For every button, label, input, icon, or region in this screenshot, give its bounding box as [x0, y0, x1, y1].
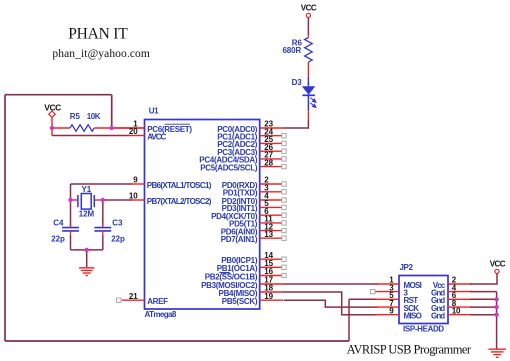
- svg-text:phan_it@yahoo.com: phan_it@yahoo.com: [52, 48, 150, 60]
- pin name PC6(RESET) with overline: [147, 124, 192, 134]
- label 12M: [79, 210, 95, 219]
- svg-text:22p: 22p: [51, 234, 65, 243]
- pin 12 stub (right): [260, 222, 286, 232]
- pin 18 stub (right): [260, 284, 284, 293]
- wire R5 right lead to pin1: [94, 127, 144, 129]
- svg-text:R5: R5: [70, 112, 81, 121]
- wire MISO net (PB4 to JP2 pin9): [284, 292, 378, 315]
- wire VCC to JP2 pin2: [470, 274, 497, 285]
- wire reset left vertical: [4, 95, 6, 341]
- pin 6 stub (right): [260, 207, 286, 218]
- pin 10 stub (left): [129, 192, 145, 201]
- svg-text:PHAN IT: PHAN IT: [68, 25, 128, 42]
- label ATmega8: [145, 310, 177, 319]
- ground (JP2): [488, 349, 506, 357]
- power VCC label (left): [44, 102, 61, 112]
- svg-text:20: 20: [129, 127, 138, 136]
- label Y1: [82, 185, 92, 194]
- caption text AVRISP USB Programmer: [347, 342, 472, 356]
- label D3: [292, 78, 303, 87]
- pin 19 stub (right): [260, 292, 284, 301]
- wire reset riser to JP2: [348, 299, 350, 341]
- pin 2 stub (right): [260, 176, 286, 187]
- node junction Gnd pin10: [494, 313, 498, 317]
- node junction XTAL2: [101, 198, 105, 202]
- wire R6 to D3: [307, 62, 309, 77]
- pin name AVCC: [147, 132, 166, 141]
- pin 5 stub (right): [260, 199, 286, 209]
- node junction VCC/R5/AVCC: [50, 126, 54, 130]
- pin name PB3(MOSI/OC2): [201, 281, 258, 290]
- wire R5 left lead: [52, 127, 70, 129]
- power VCC circle (top): [306, 13, 310, 17]
- pin 4 stub (right): [260, 192, 286, 203]
- pin name PC4(ADC4/SDA): [199, 156, 258, 165]
- node junction ground stem: [85, 248, 89, 252]
- label U1: [149, 107, 159, 116]
- pin 13 stub (right): [260, 230, 286, 241]
- svg-text:21: 21: [129, 292, 138, 301]
- label 22p (C4): [51, 234, 65, 243]
- svg-text:PB6(XTAL1/TOSC1): PB6(XTAL1/TOSC1): [147, 181, 212, 190]
- pin name PC0(ADC0): [217, 125, 258, 134]
- title text PHAN IT: [68, 25, 128, 42]
- wire D3 to PC0: [284, 121, 309, 129]
- wire R6 top lead: [307, 35, 309, 38]
- label C4: [53, 219, 64, 228]
- pin 26 stub (right): [260, 143, 286, 154]
- svg-text:C3: C3: [112, 219, 123, 228]
- svg-text:PB5(SCK): PB5(SCK): [222, 297, 258, 306]
- svg-text:Gnd: Gnd: [431, 312, 445, 321]
- wire crystal right vertical: [102, 200, 104, 227]
- svg-text:JP2: JP2: [400, 263, 414, 272]
- capacitor C3 bottom lead: [102, 231, 104, 237]
- pin name PC5(ADC5/SCL): [200, 163, 258, 172]
- svg-text:9: 9: [389, 306, 394, 315]
- wire AVCC drop: [51, 128, 53, 136]
- wire Gnd pin10 horizontal: [470, 314, 496, 316]
- wire C3 bottom lead: [102, 236, 104, 250]
- wire pin10 horizontal: [103, 199, 132, 201]
- node junction XTAL1: [68, 198, 72, 202]
- wire reset top horizontal: [5, 94, 112, 96]
- pin 28 stub (right): [260, 158, 286, 168]
- label 22p (C3): [111, 234, 125, 243]
- pin 11 stub (right): [260, 215, 286, 225]
- power VCC circle (right): [495, 269, 499, 273]
- svg-text:VCC: VCC: [44, 102, 61, 112]
- JP2 pin 5 (RST): [376, 291, 419, 305]
- pin name PD2(INT0): [222, 197, 258, 206]
- pin name PD4(XCK/T0): [211, 212, 258, 221]
- pin 3 stub (right): [260, 184, 286, 195]
- svg-text:10: 10: [452, 306, 461, 315]
- pin 20 stub (left): [129, 127, 145, 136]
- resistor R5: [70, 125, 94, 132]
- label R5: [70, 112, 81, 121]
- pin 9 stub (left): [131, 176, 145, 185]
- wire C4 bottom lead: [70, 236, 72, 250]
- wire VCC diamond to junction: [51, 117, 53, 128]
- JP2 pin 8 (Gnd): [431, 299, 472, 313]
- JP2 pin 4 (Gnd): [431, 283, 472, 297]
- svg-text:19: 19: [264, 292, 273, 301]
- JP2 pin 10 (Gnd): [431, 306, 472, 320]
- capacitor C3: [94, 228, 111, 231]
- label JP2: [400, 263, 414, 272]
- pin name PD3(INT1): [222, 204, 258, 213]
- pin name PD6(AIN0): [221, 227, 258, 236]
- LED D3: [302, 77, 316, 111]
- svg-text:ATmega8: ATmega8: [145, 310, 177, 319]
- capacitor C4 bottom lead: [70, 231, 72, 237]
- svg-text:MISO: MISO: [404, 312, 422, 321]
- crystal Y1: [71, 194, 103, 210]
- JP2 pin 9 (MISO): [376, 306, 422, 320]
- svg-text:Y1: Y1: [82, 185, 92, 194]
- svg-text:12M: 12M: [79, 210, 95, 219]
- node junction Gnd pin6: [494, 297, 498, 301]
- JP2 pin 2 (Vcc): [433, 276, 472, 290]
- svg-text:AVRISP USB Programmer: AVRISP USB Programmer: [347, 342, 472, 356]
- svg-text:ISP-HEADD: ISP-HEADD: [403, 324, 444, 333]
- svg-text:VCC: VCC: [301, 4, 317, 13]
- JP2 pin 3 (3): [371, 283, 409, 297]
- pin 24 stub (right): [260, 127, 286, 138]
- svg-text:13: 13: [264, 230, 273, 239]
- label ISP-HEADD: [403, 324, 444, 333]
- svg-text:10K: 10K: [87, 112, 101, 121]
- JP2 pin 1 (MOSI): [376, 276, 422, 290]
- label 680R: [282, 46, 301, 55]
- wire MOSI net (PB3 to JP2 pin1): [284, 283, 378, 285]
- capacitor C4 top lead: [70, 223, 72, 228]
- svg-text:680R: 680R: [282, 46, 301, 55]
- power VCC diamond symbol: [49, 111, 55, 117]
- pin name PC3(ADC3): [217, 148, 258, 157]
- wire AVCC horizontal: [52, 135, 130, 137]
- svg-text:U1: U1: [149, 107, 159, 116]
- pin name PB5(SCK): [222, 297, 258, 306]
- connector JP2 box: [399, 276, 448, 324]
- pin name PB1(OC1A): [217, 264, 258, 273]
- pin name PD1(TXD): [223, 189, 258, 198]
- svg-text:28: 28: [264, 158, 273, 167]
- wire Gnd pin6 horizontal: [470, 298, 496, 300]
- wire Gnd pin8 horizontal: [470, 306, 496, 308]
- pin name AREF: [147, 297, 168, 306]
- pin name PD0(RXD): [222, 181, 258, 190]
- wire Gnd pin4 horizontal: [470, 291, 496, 293]
- pin name PD5(T1): [229, 220, 258, 229]
- power VCC label (top): [301, 4, 317, 13]
- wire D3 cathode lead: [307, 111, 309, 121]
- label C3: [112, 219, 123, 228]
- resistor R6: [305, 38, 313, 63]
- pin 21 stub (left): [117, 292, 145, 303]
- svg-text:D3: D3: [292, 78, 303, 87]
- JP2 pin 6 (Gnd): [431, 291, 472, 305]
- IC U1 box: [145, 120, 260, 310]
- capacitor C4: [62, 228, 79, 231]
- pin 27 stub (right): [260, 151, 286, 161]
- wire reset vertical to R5 junction: [111, 95, 113, 128]
- pin 1 stub (left): [112, 120, 145, 129]
- power VCC label (right): [490, 259, 506, 268]
- svg-text:PB7(XTAL2/TOSC2): PB7(XTAL2/TOSC2): [147, 197, 212, 206]
- wire reset into JP2 pin5: [349, 298, 378, 300]
- pin name PB0(ICP1): [221, 256, 258, 265]
- pin 15 stub (right): [260, 259, 286, 270]
- pin name PB2(SS/OC1B): [205, 272, 258, 281]
- pin name PC1(ADC1): [217, 133, 258, 142]
- pin 17 stub (right): [260, 276, 284, 285]
- wire ground stem: [86, 250, 88, 267]
- JP2 pin 7 (SCK): [376, 299, 420, 313]
- pin name PB7(XTAL2/TOSC2): [147, 197, 212, 206]
- svg-text:VCC: VCC: [490, 259, 506, 268]
- pin 25 stub (right): [260, 135, 286, 145]
- svg-text:C4: C4: [53, 219, 64, 228]
- pin name PC2(ADC2): [217, 140, 258, 149]
- pin 16 stub (right): [260, 267, 286, 277]
- capacitor C3 top lead: [102, 223, 104, 228]
- wire pin9 horizontal: [71, 183, 133, 185]
- pin 14 stub (right): [260, 251, 286, 262]
- svg-text:22p: 22p: [111, 234, 125, 243]
- svg-text:PC5(ADC5/SCL): PC5(ADC5/SCL): [200, 163, 258, 172]
- wire VCC to R6: [307, 18, 309, 36]
- svg-text:9: 9: [133, 176, 138, 185]
- wire reset bottom horizontal: [5, 340, 349, 342]
- label 10K: [87, 112, 101, 121]
- ground (crystal): [79, 268, 94, 276]
- svg-text:AREF: AREF: [147, 297, 168, 306]
- pin name PB4(MISO): [219, 289, 258, 298]
- pin name PD7(AIN1): [221, 235, 258, 244]
- pin 23 stub (right): [260, 120, 284, 129]
- wire cap bottom loop: [71, 249, 103, 251]
- wire crystal left vertical: [70, 184, 72, 227]
- svg-text:AVCC: AVCC: [147, 132, 166, 141]
- subtitle text phan_it@yahoo.com: [52, 48, 150, 60]
- pin name PB6(XTAL1/TOSC1): [147, 181, 212, 190]
- svg-text:PD7(AIN1): PD7(AIN1): [221, 235, 258, 244]
- wire Gnd vertical: [496, 292, 498, 349]
- wire SCK net (PB5 to JP2 pin7): [284, 300, 378, 307]
- label R6: [292, 39, 303, 48]
- node junction R5/reset-wire: [110, 126, 114, 130]
- node junction Gnd pin8: [494, 305, 498, 309]
